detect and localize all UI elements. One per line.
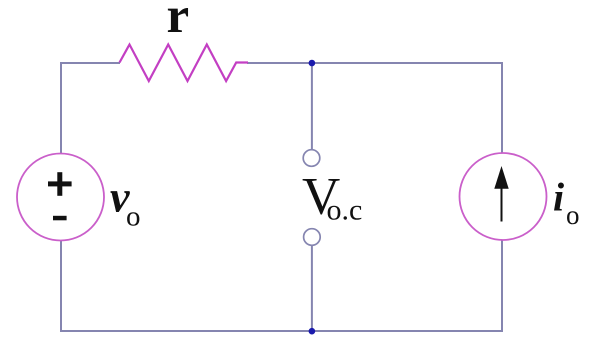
svg-text:o: o bbox=[126, 201, 141, 233]
svg-text:i: i bbox=[553, 175, 564, 220]
svg-text:o: o bbox=[566, 200, 580, 230]
svg-text:r: r bbox=[167, 0, 190, 44]
svg-text:o.c: o.c bbox=[327, 194, 363, 227]
